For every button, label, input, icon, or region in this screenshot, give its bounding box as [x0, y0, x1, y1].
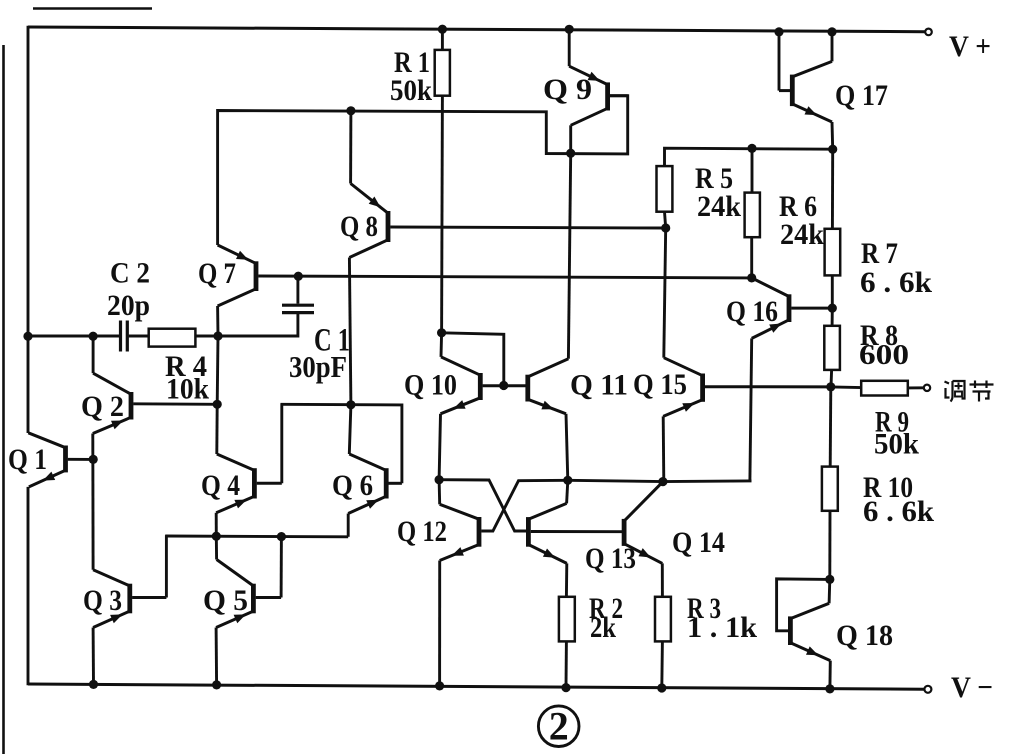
svg-text:2k: 2k — [590, 611, 616, 644]
resistor R7 — [825, 229, 841, 276]
resistor R9 — [861, 381, 908, 396]
svg-text:Q 18: Q 18 — [836, 619, 893, 652]
wire R10 top lead — [829, 387, 832, 467]
wire Q10-emitter down — [439, 414, 440, 480]
wire Q13-emitter to R2 — [565, 563, 568, 596]
wire R6 bottom lead — [750, 237, 753, 278]
wire Q13/Q14 base tie — [531, 530, 622, 533]
transistor Q4 — [216, 454, 282, 513]
wire Q2 base — [133, 402, 217, 405]
resistor R3 — [655, 597, 671, 642]
node Q17-emitter junction — [828, 145, 837, 154]
svg-text:Q 10: Q 10 — [404, 369, 457, 402]
wire Q18 base loop — [777, 579, 830, 631]
wire R1 top lead — [441, 29, 444, 50]
label adjust char 1 (tiao) — [945, 381, 965, 402]
wire Q8-emitter up — [349, 111, 352, 184]
node Q10/Q11 base junction — [499, 381, 508, 390]
wire Q12-collector up — [438, 480, 442, 505]
wire Q9-collector down — [569, 125, 572, 153]
node Q16-collector junction — [747, 273, 756, 282]
wire Q17-emitter down — [831, 122, 835, 149]
transistor Q12 — [440, 504, 479, 560]
svg-text:2: 2 — [549, 704, 569, 749]
transistor Q10 — [441, 357, 504, 414]
svg-text:6 . 6k: 6 . 6k — [860, 266, 932, 299]
node R8/R9/R10 junction — [826, 382, 835, 391]
terminal V- — [924, 686, 931, 693]
node R2 on V- rail — [561, 683, 570, 692]
svg-text:Q 11: Q 11 — [570, 369, 628, 402]
svg-text:Q 12: Q 12 — [397, 515, 447, 548]
transistor Q7 — [218, 245, 256, 306]
page scan edge top — [33, 7, 152, 10]
node Q8-emitter junction — [346, 106, 355, 115]
wire Q5-emitter down to V- rail — [215, 628, 218, 685]
svg-text:Q 1: Q 1 — [8, 443, 47, 476]
wire R3 to V- rail — [660, 641, 664, 688]
wire Q12-emitter down to V- rail — [438, 561, 441, 686]
wire node to R9 — [831, 385, 861, 389]
svg-text:Q 4: Q 4 — [201, 469, 240, 502]
wire Q9-emitter up to V+ rail — [568, 29, 571, 66]
node R3 on V- rail — [657, 683, 666, 692]
transistor Q17 — [779, 61, 832, 122]
node Q5-emitter on V- rail — [212, 680, 221, 689]
wire Q15-emitter down — [662, 416, 665, 481]
wire input junction down to Q2-base level — [216, 336, 220, 404]
node Q3-emitter on V- rail — [89, 680, 98, 689]
wire R9 to adjust terminal — [908, 386, 924, 389]
svg-text:Q 14: Q 14 — [672, 526, 725, 559]
svg-text:1 . 1k: 1 . 1k — [687, 611, 757, 644]
wire Q3-base up — [165, 535, 168, 597]
wire Q18-collector up — [828, 579, 832, 603]
wire Q5-base up — [280, 537, 283, 598]
resistor R2 — [559, 597, 575, 642]
node left-rail/input junction — [23, 332, 32, 341]
terminal V+ — [925, 29, 932, 36]
svg-text:V −: V − — [951, 671, 993, 704]
wire Q11-emitter down — [566, 414, 568, 481]
node Q9-collector junction — [566, 149, 575, 158]
wire left-rail to C2 — [28, 335, 119, 338]
resistor R5 — [657, 166, 673, 212]
wire Q3/Q5-base bus — [165, 535, 348, 539]
wire Q7-collector to Q9-base loop — [218, 96, 628, 245]
node Q18-base/collector junction — [825, 575, 834, 584]
wire Q7-base to Q16-collector (y=276) — [258, 276, 751, 278]
node Q5-base junction — [277, 532, 286, 541]
wire R6 top lead — [751, 148, 754, 192]
wire Q10-node to Q13-base (cross leg) — [439, 480, 526, 531]
wire left rail upper — [27, 26, 30, 433]
wire base-bus down to Q6-collector — [349, 405, 351, 454]
node Q18-emitter on V- rail — [825, 684, 834, 693]
wire Q2-base junction down to Q4-collector — [215, 404, 218, 454]
transistor Q16 — [752, 278, 833, 339]
node Q11-emitter junction — [563, 476, 572, 485]
node Q10-emitter junction — [435, 475, 444, 484]
transistor Q15 — [663, 358, 830, 417]
wire Q4-emitter down — [215, 513, 218, 536]
wire Q1 base — [68, 458, 93, 461]
wire R7 top lead — [831, 149, 834, 229]
wire C1 top lead — [296, 276, 299, 303]
wire R2 to V- rail — [565, 641, 568, 687]
node Q10-feed junction — [437, 328, 446, 337]
wire Q7-emitter down — [216, 306, 219, 336]
terminal adjust (tiao jie) — [924, 385, 930, 391]
svg-text:30pF: 30pF — [289, 349, 347, 384]
wire R5 bottom — [665, 212, 666, 228]
svg-text:Q 7: Q 7 — [198, 257, 236, 290]
transistor Q9 — [569, 66, 628, 125]
svg-text:6 . 6k: 6 . 6k — [863, 495, 934, 528]
svg-text:Q 16: Q 16 — [726, 295, 778, 328]
transistor Q3 — [93, 570, 166, 628]
wire Q17-collector up to V+ rail — [831, 32, 834, 62]
wire Q11-node to Q12-base (cross leg) — [481, 480, 568, 531]
wire Q2-emitter to Q3-collector — [91, 434, 94, 570]
wire Q8-collector down — [349, 258, 351, 405]
node Q14-collector junction — [658, 477, 667, 486]
wire Q10-feed corner — [442, 333, 504, 386]
transistor Q5 — [216, 560, 281, 628]
transistor Q11 — [503, 359, 568, 414]
svg-text:V +: V + — [949, 30, 991, 63]
node Q8-collector on base bus — [346, 400, 355, 409]
resistor R4 — [149, 329, 196, 347]
wire Q18-emitter down to V- rail — [828, 661, 831, 689]
svg-text:24k: 24k — [697, 190, 741, 223]
svg-text:Q 3: Q 3 — [83, 584, 122, 617]
svg-text:Q 9: Q 9 — [543, 73, 592, 106]
wire Q17-base from V+ rail — [778, 32, 781, 91]
svg-text:50k: 50k — [874, 428, 919, 461]
label adjust char 2 (jie) — [970, 381, 994, 402]
node Q17-collector on V+ rail — [827, 27, 836, 36]
svg-text:Q 15: Q 15 — [633, 368, 687, 401]
node R7/R8/Q16-base junction — [828, 304, 837, 313]
transistor Q2 — [93, 373, 131, 433]
wire Q16-emitter down — [750, 338, 752, 481]
wire Q2-collector up — [92, 336, 95, 373]
node Q12-emitter on V- rail — [435, 681, 444, 690]
wire R4 to C1 bottom — [195, 314, 298, 336]
resistor R10 — [822, 467, 838, 511]
wire Q5-collector up — [215, 536, 218, 559]
wire Q8 base (y=227) — [390, 227, 665, 228]
node Q2-base junction — [213, 400, 222, 409]
svg-text:Q 6: Q 6 — [332, 469, 373, 502]
wire Q11-node to Q14-collector — [568, 480, 663, 481]
svg-text:C 2: C 2 — [110, 257, 150, 290]
wire Q14-emitter to R3 — [661, 563, 664, 596]
node R5/Q8-base junction — [661, 223, 670, 232]
resistor R6 — [745, 193, 760, 238]
svg-text:50k: 50k — [390, 74, 432, 107]
svg-text:24k: 24k — [780, 218, 824, 251]
capacitor C2 — [121, 321, 128, 352]
node R6 top junction — [747, 144, 756, 153]
transistor Q13 — [528, 503, 566, 563]
svg-text:10k: 10k — [166, 373, 209, 406]
wire Q6-emitter down — [347, 514, 350, 537]
node Q9-emitter on V+ rail — [565, 25, 574, 34]
wire C2 to R4 — [129, 335, 149, 338]
node C1 junction on Q7 base wire — [294, 272, 303, 281]
wire Q3-emitter down to V- rail — [92, 628, 95, 685]
node Q1-base junction — [89, 455, 98, 464]
wire V+ rail — [28, 27, 925, 32]
wire Q4/Q6 base bus — [281, 403, 402, 407]
svg-text:Q 2: Q 2 — [81, 390, 124, 423]
svg-text:Q 8: Q 8 — [340, 210, 378, 243]
node R1 on V+ rail — [438, 25, 447, 34]
transistor Q8 — [349, 184, 388, 258]
page scan edge left — [2, 45, 5, 754]
node Q4-emitter/Q5-collector junction — [212, 532, 221, 541]
wire Q13-collector up — [567, 480, 568, 503]
wire Q4-base up — [280, 404, 283, 484]
wire Q6-base up — [400, 404, 403, 484]
wire Q14-node to Q16-emitter corner — [663, 479, 752, 483]
transistor Q6 — [348, 454, 402, 514]
figure number circled 2 — [538, 704, 579, 749]
wire R5 top corner — [665, 148, 833, 166]
resistor R8 — [824, 326, 840, 370]
wire V- rail — [28, 684, 924, 689]
capacitor C1 — [282, 305, 314, 312]
wire R8 bottom lead — [830, 370, 833, 387]
wire R1 bottom to Q10-feed — [440, 96, 444, 333]
svg-text:600: 600 — [859, 339, 909, 371]
wire left rail lower — [27, 487, 30, 685]
node Q7-emitter junction — [213, 331, 222, 340]
resistor R1 — [435, 50, 450, 96]
node Q2-collector junction — [89, 332, 98, 341]
wire R10 bottom lead — [828, 511, 831, 580]
wire R8 top lead — [831, 308, 834, 326]
transistor Q1 — [28, 433, 65, 487]
wire R5-node to Q15-collector — [664, 228, 666, 358]
transistor Q14 — [624, 482, 662, 563]
transistor Q18 — [790, 603, 830, 660]
svg-text:Q 17: Q 17 — [835, 79, 888, 112]
wire Q9-collector to Q11-collector — [568, 153, 570, 359]
svg-text:20p: 20p — [107, 289, 150, 322]
wire R7 bottom lead — [831, 275, 834, 308]
wire Q10-collector diag feed — [440, 333, 444, 357]
svg-text:Q 5: Q 5 — [203, 584, 248, 617]
node Q17-base on V+ rail — [774, 27, 783, 36]
